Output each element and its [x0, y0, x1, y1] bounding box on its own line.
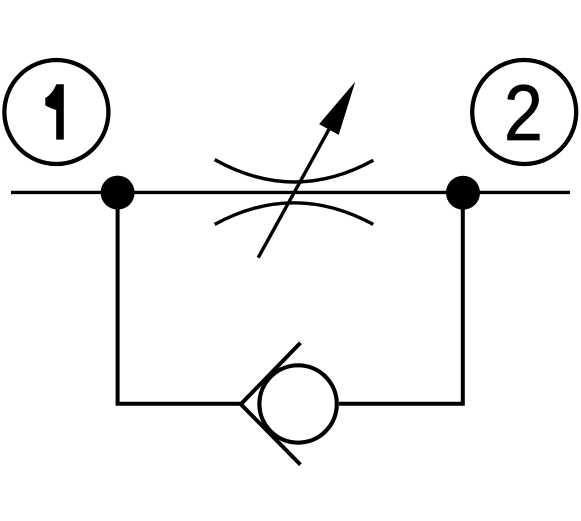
- adjustment arrow shaft: [258, 126, 331, 258]
- check valve seat lower leg: [241, 404, 301, 464]
- wire bottom right horizontal: [339, 402, 463, 406]
- junction node at port 2 branch: [446, 176, 480, 210]
- port circle 2: [472, 60, 576, 164]
- throttle upper arc: [215, 160, 374, 182]
- check valve seat upper leg: [241, 343, 301, 404]
- wire main horizontal 1-2: [11, 191, 570, 194]
- check valve ball circle: [259, 365, 336, 442]
- port label 1: [45, 84, 64, 139]
- port circle 1: [4, 60, 108, 164]
- wire bottom left horizontal: [116, 402, 242, 406]
- adjustment arrow head: [319, 82, 355, 135]
- wire right vertical branch: [461, 193, 465, 406]
- junction node at port 1 branch: [101, 176, 135, 210]
- wire left vertical branch: [116, 193, 120, 404]
- throttle lower arc: [215, 203, 374, 225]
- svg-text:2: 2: [504, 69, 543, 157]
